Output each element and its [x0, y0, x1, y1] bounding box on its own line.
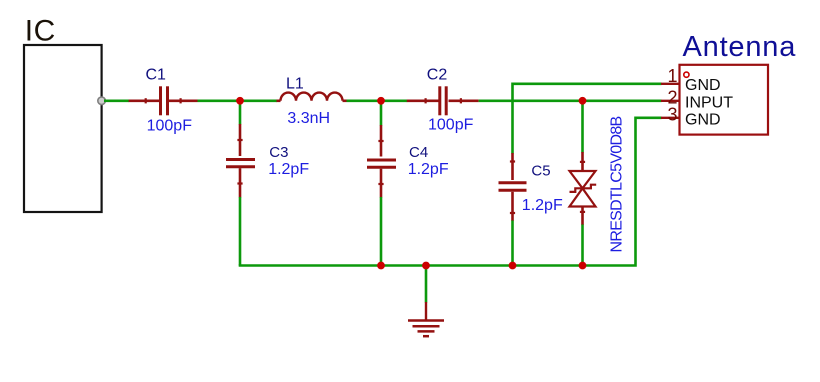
antenna pin 3 lead [661, 117, 680, 119]
wire C5 to ground rail [511, 221, 514, 266]
svg-text:GND: GND [685, 77, 721, 94]
capacitor C3 [226, 124, 255, 198]
IC box [24, 45, 102, 212]
antenna box [680, 65, 769, 135]
capacitor C1 [129, 86, 198, 115]
port dot at IC pin [98, 97, 106, 105]
antenna pin 2 lead [661, 100, 680, 102]
svg-text:C1: C1 [146, 67, 167, 84]
svg-text:C3: C3 [269, 144, 288, 161]
junction rail/ground [422, 262, 430, 270]
ground rail wire [240, 118, 662, 266]
junction rail/C4 [377, 262, 385, 270]
wire C4 to ground rail [380, 197, 383, 266]
junction node A [236, 97, 244, 105]
svg-text:NRESDTLC5V0D8B: NRESDTLC5V0D8B [609, 116, 626, 252]
svg-text:C4: C4 [409, 144, 428, 161]
capacitor C5 [499, 153, 527, 221]
TVS diode D1 NRESDTLC5V0D8B [570, 152, 597, 225]
svg-text:3: 3 [667, 105, 677, 125]
svg-text:1.2pF: 1.2pF [522, 197, 563, 214]
svg-text:100pF: 100pF [428, 117, 474, 134]
wire C1 to node A [198, 100, 244, 103]
svg-text:1.2pF: 1.2pF [268, 161, 309, 178]
junction node B [377, 97, 385, 105]
svg-text:GND: GND [685, 112, 721, 129]
svg-text:100pF: 100pF [147, 118, 193, 135]
svg-text:1: 1 [667, 66, 677, 86]
wire C3 to ground rail [239, 197, 242, 266]
ground [408, 302, 444, 336]
svg-text:1.2pF: 1.2pF [408, 161, 449, 178]
pin 1 marker circle [684, 72, 689, 77]
svg-text:C2: C2 [427, 67, 448, 84]
wire TVS to ground rail [581, 225, 584, 266]
wire antenna pin 1 to C5 branch [513, 84, 662, 154]
antenna pin 1 lead [661, 83, 680, 85]
wire node A down to C3 [239, 101, 242, 125]
wire node A to L1 [240, 100, 277, 103]
svg-text:L1: L1 [286, 75, 304, 92]
wire node B down to C4 [380, 101, 383, 126]
wire node C down to TVS [581, 101, 584, 153]
svg-text:C5: C5 [531, 163, 550, 180]
inductor L1 [277, 93, 347, 101]
wire rail to ground symbol [425, 266, 428, 303]
capacitor C2 [407, 86, 479, 115]
capacitor C4 [367, 125, 396, 198]
svg-text:3.3nH: 3.3nH [287, 110, 330, 127]
junction node C [579, 97, 587, 105]
junction rail/TVS [579, 262, 587, 270]
wire L1 to node B [347, 100, 385, 103]
svg-text:Antenna: Antenna [683, 31, 797, 63]
svg-text:IC: IC [25, 15, 56, 48]
wire C2 to antenna pin 2 [479, 100, 662, 103]
wire IC to C1 [104, 100, 129, 103]
junction rail/C5 [509, 262, 517, 270]
wire node B to C2 [381, 100, 407, 103]
svg-text:INPUT: INPUT [685, 95, 733, 112]
